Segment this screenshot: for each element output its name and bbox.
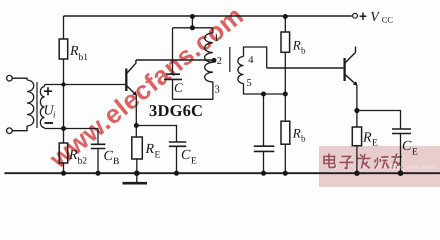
svg-text:E: E — [191, 157, 197, 167]
svg-text:C: C — [181, 148, 191, 163]
svg-text:E: E — [372, 139, 378, 149]
svg-text:3DG6C: 3DG6C — [149, 101, 203, 120]
svg-text:R: R — [69, 44, 79, 59]
svg-text:R: R — [145, 142, 155, 157]
svg-text:i: i — [53, 110, 56, 120]
svg-text:b2: b2 — [78, 157, 88, 167]
svg-text:C: C — [402, 139, 412, 154]
svg-text:R: R — [292, 38, 301, 53]
svg-text:b1: b1 — [79, 53, 89, 63]
svg-text:b: b — [301, 134, 306, 144]
svg-text:E: E — [412, 148, 418, 158]
svg-text:Elec ans.com: Elec ans.com — [390, 163, 435, 172]
svg-text:B: B — [113, 157, 119, 167]
svg-text:V: V — [370, 10, 380, 25]
svg-text:R: R — [362, 131, 372, 146]
svg-text:R: R — [68, 148, 78, 163]
svg-text:2: 2 — [217, 56, 222, 67]
svg-text:b: b — [301, 46, 306, 56]
svg-text:3: 3 — [215, 84, 220, 95]
svg-text:CC: CC — [382, 15, 394, 24]
svg-text:5: 5 — [247, 78, 252, 89]
svg-text:C: C — [104, 149, 114, 164]
svg-text:E: E — [155, 151, 161, 161]
svg-text:C: C — [174, 80, 183, 95]
svg-text:4: 4 — [248, 55, 254, 66]
svg-text:1: 1 — [214, 33, 219, 44]
svg-text:R: R — [292, 126, 301, 141]
